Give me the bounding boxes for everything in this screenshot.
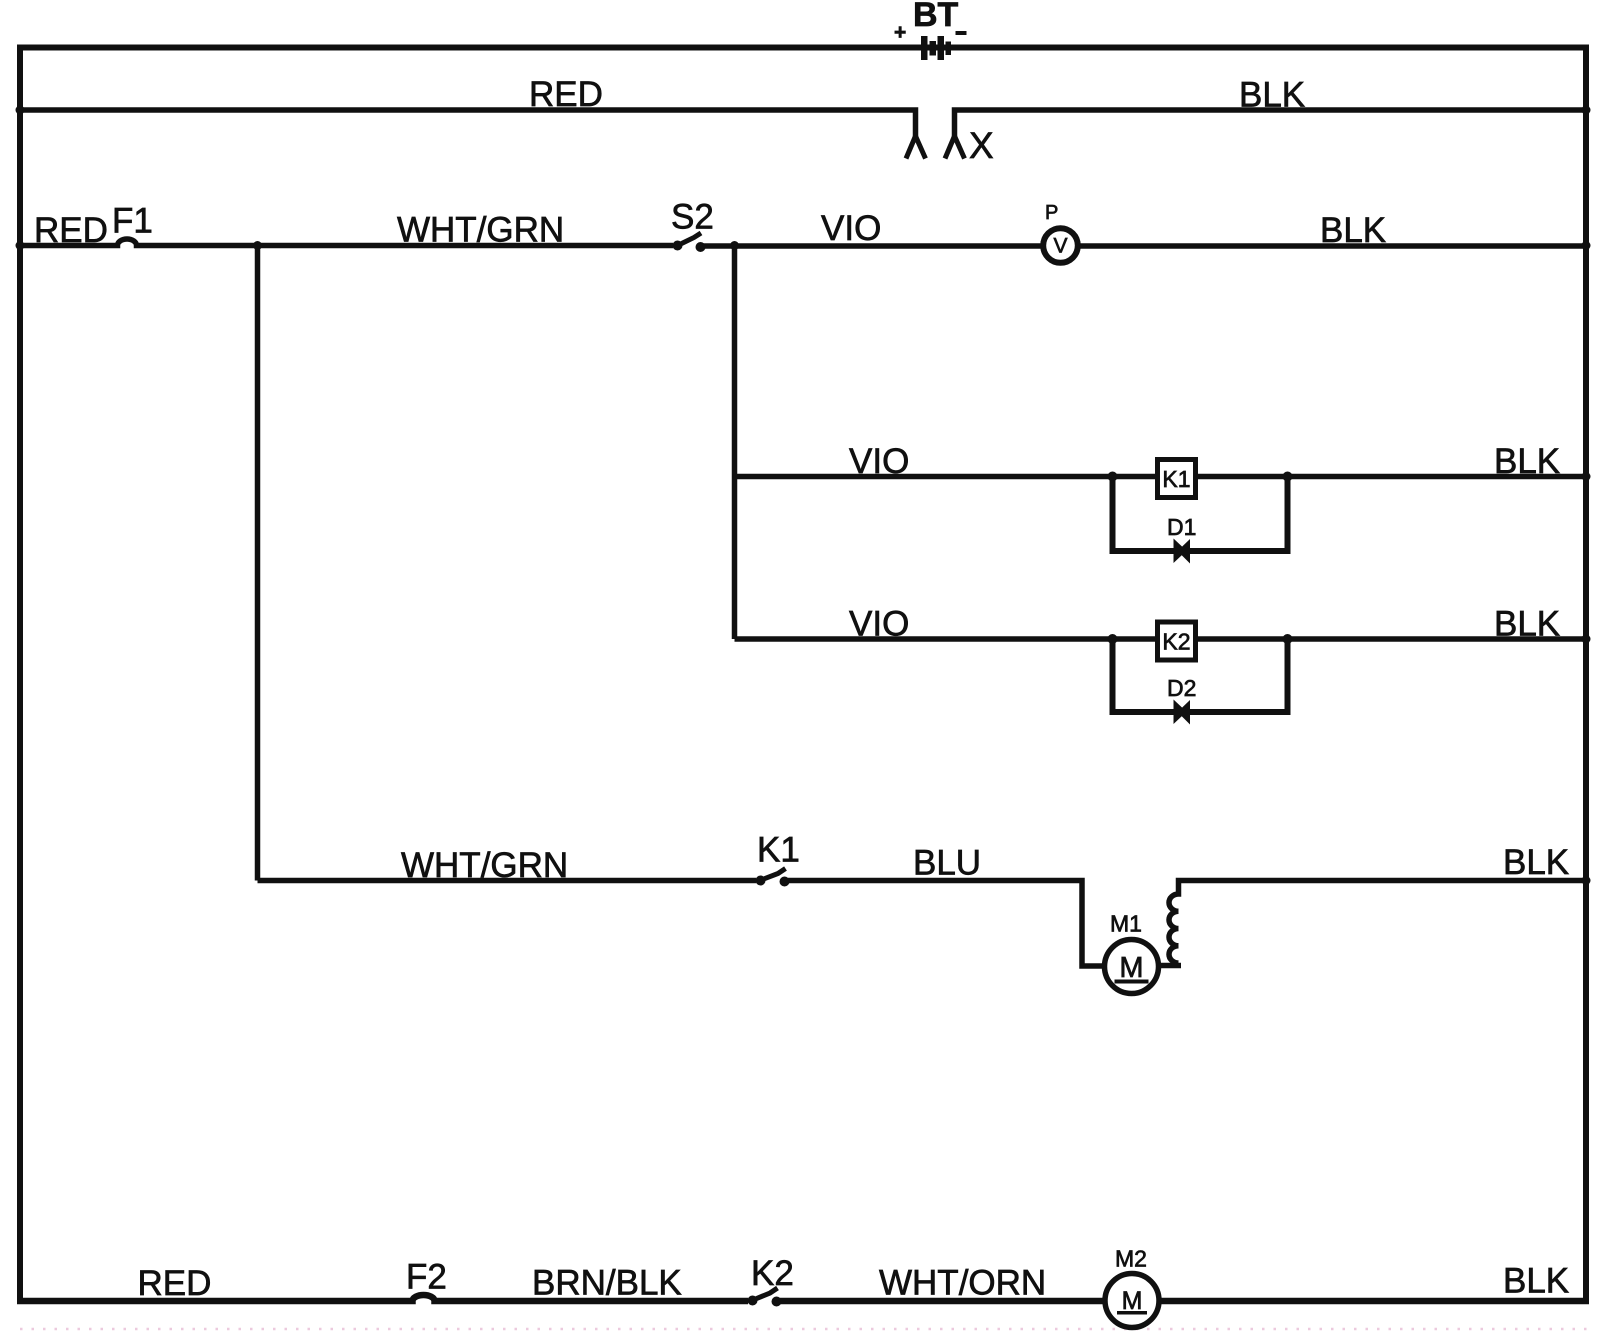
svg-text:BLK: BLK — [1503, 843, 1569, 882]
svg-text:V: V — [1053, 235, 1067, 258]
svg-text:VIO: VIO — [821, 209, 881, 248]
svg-text:K2: K2 — [1162, 629, 1190, 655]
svg-text:M1: M1 — [1110, 911, 1142, 937]
svg-text:WHT/GRN: WHT/GRN — [397, 211, 564, 250]
svg-text:WHT/GRN: WHT/GRN — [401, 846, 568, 885]
svg-text:BLK: BLK — [1494, 605, 1560, 644]
svg-text:+: + — [894, 21, 906, 44]
svg-text:BLK: BLK — [1320, 211, 1386, 250]
svg-text:M: M — [1119, 952, 1143, 984]
svg-text:K1: K1 — [757, 831, 800, 870]
svg-text:VIO: VIO — [849, 605, 909, 644]
svg-text:BLU: BLU — [913, 844, 981, 883]
svg-text:BRN/BLK: BRN/BLK — [532, 1264, 682, 1303]
svg-text:F2: F2 — [406, 1258, 447, 1297]
svg-text:D2: D2 — [1167, 675, 1196, 701]
svg-text:BT: BT — [913, 0, 959, 34]
svg-text:K1: K1 — [1162, 466, 1190, 492]
svg-text:WHT/ORN: WHT/ORN — [879, 1264, 1046, 1303]
svg-text:RED: RED — [34, 211, 108, 250]
svg-text:BLK: BLK — [1494, 442, 1560, 481]
svg-text:S2: S2 — [671, 198, 714, 237]
svg-text:F1: F1 — [112, 202, 153, 241]
svg-text:P: P — [1045, 202, 1058, 224]
svg-text:K2: K2 — [751, 1254, 794, 1293]
svg-text:X: X — [969, 125, 994, 166]
svg-text:BLK: BLK — [1503, 1262, 1569, 1301]
svg-text:M2: M2 — [1115, 1246, 1147, 1272]
svg-text:M: M — [1122, 1287, 1143, 1315]
svg-text:VIO: VIO — [849, 442, 909, 481]
svg-text:RED: RED — [138, 1264, 212, 1303]
svg-text:BLK: BLK — [1239, 76, 1305, 115]
svg-text:D1: D1 — [1167, 514, 1196, 540]
svg-text:RED: RED — [529, 75, 603, 114]
